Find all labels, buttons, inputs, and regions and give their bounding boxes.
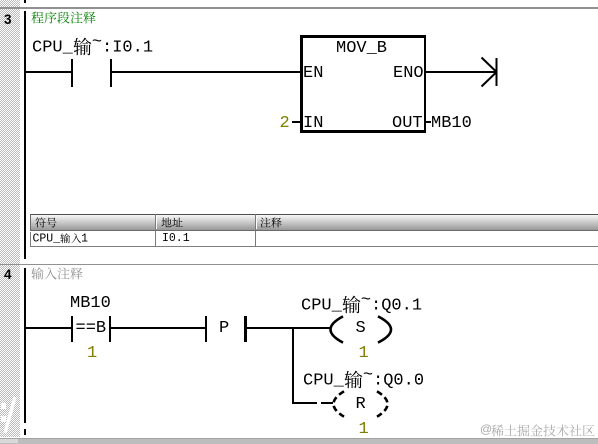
label MB10 at OUT (431, 115, 472, 132)
label MB10 above compare contact (70, 295, 111, 312)
table column divider 1 (155, 214, 157, 247)
cell I0.1 (162, 233, 190, 245)
network 4 comment 输入注释 (31, 267, 83, 280)
wire rail to contact (26, 71, 72, 73)
network 3 separator (0, 7, 598, 9)
value 1 under R coil (359, 421, 369, 438)
header cell 地址 (161, 217, 183, 228)
network 4 number (4, 268, 12, 282)
value 2 at IN (280, 115, 290, 132)
wire branch to R coil (broken) (294, 402, 317, 404)
watermark @稀土掘金技术社区 (480, 423, 492, 435)
contact P right bar (244, 316, 247, 342)
label contact I0.1: CPU_输~:I0.1 (32, 37, 153, 57)
bottom scrollbar strip (0, 438, 598, 444)
value 1 under S coil (359, 345, 369, 362)
pin ENO (393, 65, 424, 82)
wire ENO to open arrow (426, 71, 496, 73)
network gutter (dithered) (0, 0, 20, 437)
wire stub value 2 to IN (292, 121, 300, 123)
wire compare to P contact (111, 327, 205, 329)
network 3 comment 程序段注释 (31, 11, 96, 24)
coil R parentheses (dashed) (330, 390, 396, 418)
wire branch vertical (292, 327, 294, 404)
header cell 注释 (260, 217, 282, 228)
wire rail to compare contact (26, 327, 72, 329)
label coil R: CPU_输~:Q0.0 (303, 370, 424, 390)
pin OUT (392, 115, 423, 132)
value 1 under compare contact (87, 345, 97, 362)
node: network 4 left power rail (24, 268, 26, 435)
coil R letter (356, 396, 366, 413)
label MOV_B title (336, 40, 387, 57)
juejin watermark knockout: rail gap (23, 423, 26, 429)
node: network 3 left power rail (24, 11, 26, 259)
wire: previous network rail stub (24, 0, 26, 3)
network 3 number (4, 13, 12, 27)
table divider highlights (156, 215, 157, 229)
table column divider 2 (255, 214, 257, 247)
open branch arrow (479, 55, 503, 89)
pin EN (303, 65, 323, 82)
wire stub OUT to MB10 (426, 121, 431, 123)
table row bottom border (30, 232, 598, 248)
compare contact ==B right bar (109, 316, 111, 342)
juejin watermark knockout: slash (0, 395, 20, 435)
wire P contact to S coil (247, 327, 331, 329)
coil S parentheses (327, 315, 393, 344)
pin IN (303, 115, 323, 132)
contact I0.1 right bar (110, 59, 112, 87)
contact P left bar (205, 316, 207, 342)
juejin watermark knockout: colon dots (1, 403, 6, 409)
network 4 separator (0, 264, 598, 266)
box MOV_B (300, 35, 426, 38)
compare contact ==B text (76, 320, 107, 337)
cell CPU_输入1 (33, 233, 89, 245)
compare contact ==B left bar (71, 316, 73, 342)
coil S letter (356, 320, 366, 337)
label coil S: CPU_输~:Q0.1 (301, 295, 422, 315)
wire contact to MOV_B EN (112, 71, 300, 73)
contact I0.1 left bar (71, 59, 73, 87)
symbol table header (30, 214, 598, 231)
contact P text (219, 320, 229, 337)
header cell 符号 (35, 217, 57, 228)
